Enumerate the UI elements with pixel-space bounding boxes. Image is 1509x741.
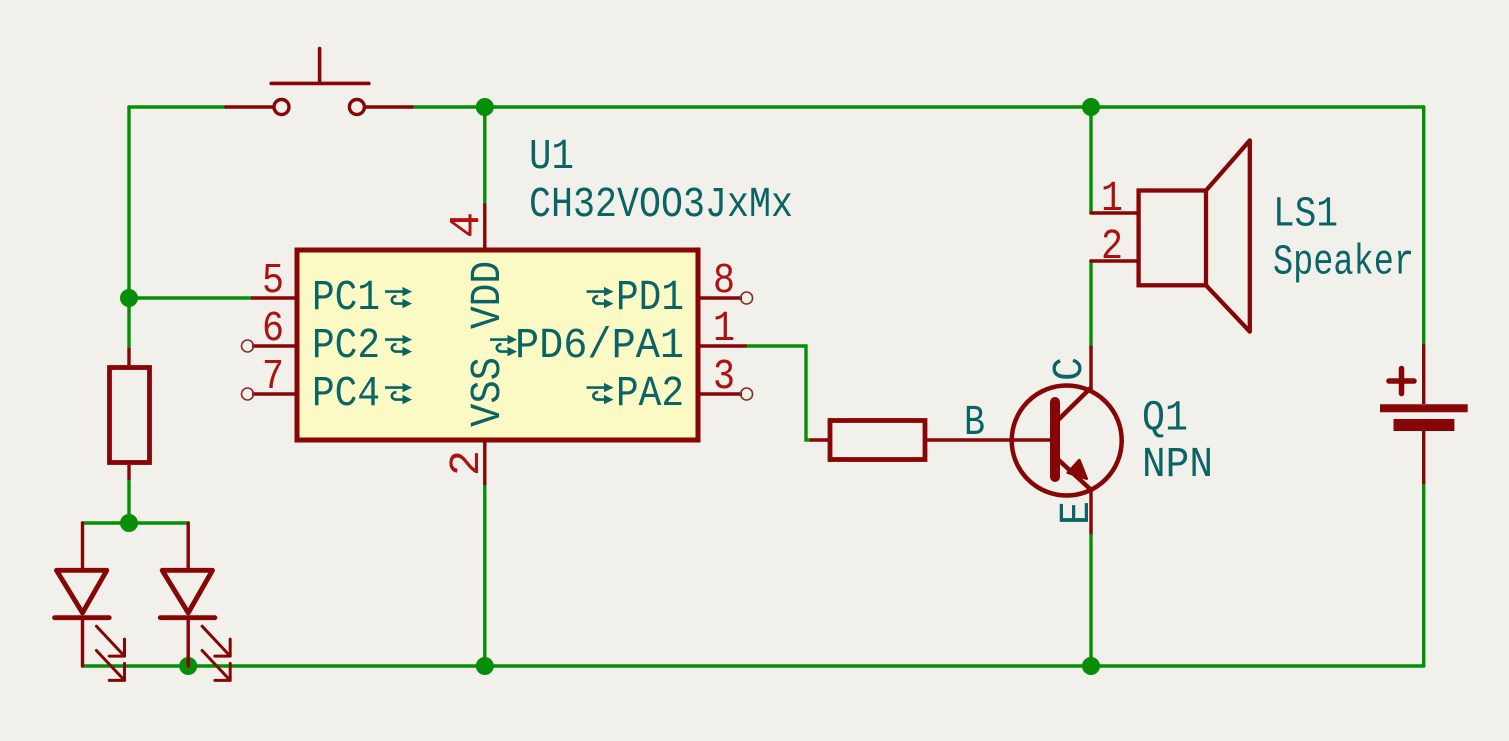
- pin 1 stub: [698, 344, 747, 347]
- wire bottom horizontal: [83, 664, 1424, 667]
- wire below R1: [127, 481, 130, 523]
- wire speaker pin2 to collector: [1089, 261, 1092, 347]
- svg-text:1: 1: [713, 304, 735, 353]
- junction top speaker: [1082, 98, 1100, 116]
- svg-text:PC2: PC2: [312, 321, 380, 370]
- speaker LS1: [1091, 140, 1250, 331]
- junction top pin4: [476, 98, 494, 116]
- pin 3 stub: [698, 392, 742, 395]
- transistor emitter arrow: [1068, 460, 1087, 478]
- wire top from switch to right: [412, 105, 1424, 108]
- svg-text:PD1: PD1: [616, 273, 684, 322]
- svg-text:2: 2: [1101, 222, 1123, 271]
- junction LED split: [120, 514, 138, 532]
- svg-text:5: 5: [262, 256, 284, 305]
- svg-text:8: 8: [713, 256, 735, 305]
- svg-text:Speaker: Speaker: [1273, 238, 1414, 287]
- svg-text:CH32VOO3JxMx: CH32VOO3JxMx: [529, 180, 793, 229]
- svg-text:7: 7: [262, 352, 284, 401]
- bidir arrow glyph pin PD1: [587, 287, 614, 308]
- junction bottom LED2: [179, 657, 197, 675]
- transistor Q1: [1012, 347, 1122, 533]
- IC U1 body: [297, 250, 698, 440]
- svg-text:3: 3: [713, 352, 735, 401]
- wire right vertical above battery: [1422, 107, 1425, 344]
- svg-text:B: B: [964, 398, 985, 447]
- svg-text:Q1: Q1: [1142, 394, 1188, 443]
- svg-text:U1: U1: [529, 132, 574, 181]
- bidir arrow glyph pin PC2: [385, 335, 412, 356]
- svg-text:E: E: [1052, 501, 1101, 525]
- resistor R1: [110, 348, 150, 480]
- svg-text:1: 1: [1101, 174, 1123, 223]
- LED D2: [160, 523, 230, 680]
- wire left vertical to R1: [127, 298, 130, 348]
- wire right vertical below battery: [1422, 484, 1425, 666]
- resistor R2: [810, 421, 1053, 460]
- svg-text:VSS: VSS: [463, 357, 512, 427]
- junction bottom emitter: [1082, 657, 1100, 675]
- bidir arrow glyph pin PC1: [385, 287, 412, 308]
- pin 7 stub: [252, 392, 297, 395]
- bidir arrow glyph pin PD6/PA1: [490, 335, 517, 356]
- svg-text:PD6/PA1: PD6/PA1: [515, 321, 684, 370]
- wire LED split horizontal: [83, 521, 189, 524]
- wire pin1 to R2: [747, 346, 810, 440]
- pin 8 stub: [698, 296, 742, 299]
- bidir arrow glyph pin PA2: [587, 383, 614, 404]
- battery BT1: [1380, 344, 1468, 484]
- svg-text:C: C: [1045, 357, 1094, 381]
- pin 6 stub: [252, 344, 297, 347]
- wire emitter to bottom: [1089, 533, 1092, 667]
- svg-text:2: 2: [442, 450, 491, 476]
- pin 2 stub: [483, 440, 486, 485]
- wire top-left horizontal to switch: [129, 105, 226, 108]
- svg-text:PC4: PC4: [312, 369, 380, 418]
- bidir arrow glyph pin PC4: [385, 383, 412, 404]
- LED D1: [55, 523, 125, 680]
- wire to pin5: [129, 296, 251, 299]
- wire pin2 to bottom: [483, 485, 486, 666]
- svg-text:NPN: NPN: [1142, 440, 1213, 489]
- wire left vertical: [127, 107, 130, 298]
- junction bottom pin2: [476, 657, 494, 675]
- switch SW1: [226, 49, 412, 115]
- svg-text:LS1: LS1: [1273, 190, 1338, 239]
- svg-text:6: 6: [262, 304, 284, 353]
- pin 5 stub: [251, 296, 297, 299]
- svg-text:PA2: PA2: [616, 369, 684, 418]
- pin 4 stub: [483, 204, 486, 251]
- junction left pin5: [120, 289, 138, 307]
- svg-text:VDD: VDD: [463, 261, 512, 329]
- wire speaker drop: [1089, 107, 1092, 213]
- wire pin4 drop from top: [483, 107, 486, 204]
- svg-text:PC1: PC1: [312, 273, 380, 322]
- svg-text:4: 4: [442, 212, 491, 238]
